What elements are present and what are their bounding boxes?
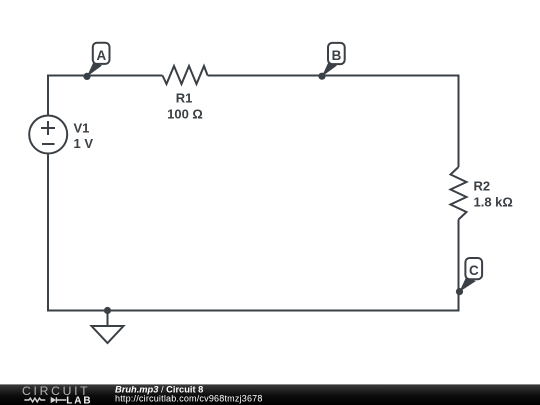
svg-text:1.8 kΩ: 1.8 kΩ: [474, 195, 513, 210]
label V1 value: [74, 121, 94, 152]
wire: top horizontal left segment (A to R1): [47, 75, 163, 77]
voltage source V1: [29, 116, 67, 154]
node B: [318, 43, 344, 80]
resistor R2: [451, 167, 467, 220]
wire: left vertical below V1: [47, 155, 49, 311]
svg-text:C: C: [469, 263, 479, 278]
ground: [92, 307, 124, 343]
node C: [456, 258, 482, 295]
wire: bottom horizontal: [47, 310, 460, 312]
wire: right vertical below R2: [458, 220, 460, 312]
svg-text:R1: R1: [176, 91, 193, 106]
footer bar: [0, 384, 540, 405]
resistor R1: [163, 66, 208, 84]
svg-text:V1: V1: [74, 121, 90, 136]
wire: top horizontal right segment (R1 to corner): [208, 75, 459, 77]
logo schematic squiggle: [24, 397, 66, 403]
logo diode: [51, 397, 57, 403]
wire: left vertical above V1: [47, 76, 49, 115]
wire: right vertical above R2: [458, 75, 460, 168]
svg-text:http://circuitlab.com/cv968tmz: http://circuitlab.com/cv968tmzj3678: [115, 393, 263, 403]
svg-text:LAB: LAB: [66, 395, 92, 405]
label R1 value: [167, 91, 203, 122]
svg-text:1 V: 1 V: [74, 136, 94, 151]
svg-text:B: B: [332, 48, 342, 63]
node A: [83, 43, 109, 80]
label R2 value: [474, 179, 513, 210]
svg-text:R2: R2: [474, 179, 491, 194]
svg-text:100 Ω: 100 Ω: [167, 107, 203, 122]
svg-text:A: A: [96, 48, 106, 63]
